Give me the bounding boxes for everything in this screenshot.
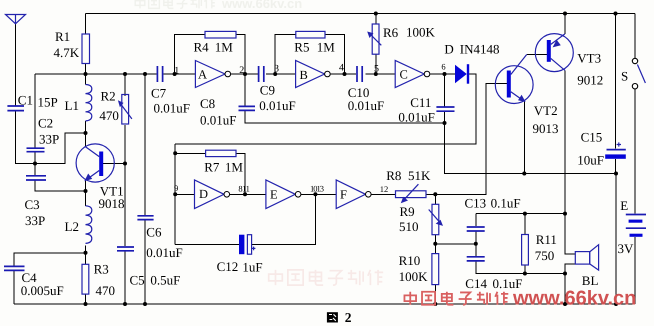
watermark middle ghost [269, 270, 383, 285]
value label L1 [65, 98, 79, 113]
svg-text:B: B [300, 68, 308, 82]
value label C2 33P [38, 115, 59, 146]
svg-text:1: 1 [174, 65, 179, 76]
svg-text:C11: C11 [410, 95, 431, 110]
transistor VT2 [495, 54, 533, 103]
svg-text:R2: R2 [101, 88, 116, 103]
junction node (435.3,194.3) [433, 192, 437, 196]
wire C4 bottom lead to rail [13, 271, 15, 304]
resistor R11 [522, 235, 529, 266]
svg-text:0.01uF: 0.01uF [259, 98, 295, 113]
svg-text:www.66kv.cn: www.66kv.cn [221, 0, 302, 11]
value label R1 4.7K [54, 29, 80, 60]
value label C5 0.5uF [130, 273, 181, 288]
junction node (475.8,243.8) [474, 242, 478, 246]
value label VT2 9013 [533, 103, 559, 136]
wire L2 bottom to node [85, 246, 87, 265]
value label BL [582, 273, 599, 288]
value label C7 0.01uF [151, 86, 190, 116]
wire top positive rail [86, 13, 636, 15]
svg-text:470: 470 [99, 108, 119, 123]
wire C15 bottom lead [615, 159, 617, 174]
wire D out to E in [230, 193, 266, 195]
svg-text:E: E [620, 198, 628, 213]
svg-text:0.01uF: 0.01uF [146, 245, 182, 260]
svg-text:10uF: 10uF [577, 153, 604, 168]
wire C6 column top [144, 74, 146, 215]
capacitor C15 (electrolytic) [605, 142, 626, 158]
junction node (444.5,74) [443, 72, 447, 76]
junction node (175.2,194.3) [173, 192, 177, 196]
wire C12 left lead [175, 243, 239, 245]
junction node (565,304) [563, 302, 567, 306]
wire switch top lead [634, 14, 636, 59]
svg-text:2: 2 [345, 310, 352, 325]
junction node (565,13.5) [563, 12, 567, 16]
capacitor C9 [259, 66, 264, 82]
wire C11 hang from node6 [444, 74, 446, 106]
resistor R7 [206, 150, 236, 156]
junction node (375.8,13.5) [374, 12, 378, 16]
svg-text:0.01uF: 0.01uF [398, 110, 434, 125]
wire R11 top lead [524, 214, 526, 235]
capacitor C5 [117, 247, 134, 251]
svg-text:1M: 1M [215, 40, 234, 55]
svg-text:C: C [400, 67, 408, 81]
wire speaker net y213.6 [476, 213, 565, 215]
value label R3 470 [94, 262, 115, 299]
svg-text:1013: 1013 [310, 183, 324, 193]
pin 6 [441, 62, 445, 72]
junction node (615.5,13.5) [614, 12, 618, 16]
svg-text:C13: C13 [465, 196, 487, 211]
junction node (435.3,243.8) [433, 242, 437, 246]
svg-text:3V: 3V [618, 241, 635, 256]
wire L1 top lead [85, 74, 87, 85]
value label C4 0.005uF [21, 270, 64, 298]
value label C9 0.01uF [259, 82, 295, 113]
wire D gate input lead [175, 193, 194, 195]
pin 3 [274, 63, 279, 74]
antenna [6, 15, 26, 24]
svg-text:R4: R4 [194, 40, 210, 55]
wire C10 to gate C input [365, 73, 395, 75]
svg-text:0.01uF: 0.01uF [348, 98, 384, 113]
op-amp inverter gate F [336, 180, 371, 209]
svg-text:100K: 100K [406, 25, 436, 40]
value label R11 750 [535, 232, 557, 263]
gate letter A [198, 68, 207, 82]
junction node (145,304) [143, 302, 147, 306]
capacitor C1 [7, 106, 24, 111]
capacitor C6 [137, 216, 153, 220]
wire R9 top lead [434, 194, 436, 204]
op-amp inverter gate D [195, 180, 230, 209]
svg-text:0.005uF: 0.005uF [21, 283, 64, 298]
wire base node down to C5 [124, 164, 126, 247]
junction node (125,163.5) [123, 162, 127, 166]
wire VT2 collector to VT3 base [527, 53, 547, 55]
junction node (125,74) [123, 72, 127, 76]
svg-text:1uF: 1uF [242, 259, 262, 274]
resistor R2 (adjustable) [118, 95, 132, 125]
capacitor C14 [467, 257, 485, 261]
wire VT3 collector column down to speaker [565, 70, 575, 253]
wire E out to F in [301, 193, 336, 195]
svg-text:0.5uF: 0.5uF [150, 273, 180, 288]
wire R10 bottom lead [434, 285, 436, 304]
capacitor C4 [4, 266, 25, 270]
svg-text:9012: 9012 [577, 72, 603, 87]
diode D IN4148 [455, 64, 469, 84]
svg-text:33P: 33P [39, 131, 59, 146]
capacitor C7 [157, 66, 162, 82]
capacitor C8 [239, 106, 256, 110]
value label C13 0.1uF [465, 196, 521, 211]
op-amp inverter gate C [395, 61, 430, 88]
junction node (35,163.5) [33, 162, 37, 166]
svg-text:4: 4 [339, 62, 344, 73]
gate letter D [199, 187, 208, 201]
svg-text:R1: R1 [55, 29, 70, 44]
svg-text:C1: C1 [18, 93, 33, 108]
value label R5 1M [294, 39, 335, 54]
svg-text:2: 2 [239, 65, 244, 76]
svg-text:C14: C14 [465, 276, 487, 291]
inductor L1 [86, 85, 92, 121]
capacitor C12 (electrolytic 1uF) [239, 235, 255, 255]
wire antenna lead down to C1 [15, 24, 17, 106]
wire F out to R8 [371, 193, 395, 195]
wire VT2 emitter down to ground wire [523, 101, 525, 173]
value label C3 33P [25, 197, 46, 228]
pin 1 [174, 65, 179, 76]
svg-text:C3: C3 [25, 197, 40, 212]
svg-text:VT2: VT2 [534, 103, 558, 118]
value label VT3 9012 [577, 50, 603, 87]
svg-text:4.7K: 4.7K [54, 45, 80, 60]
svg-text:E: E [270, 188, 278, 202]
svg-text:15P: 15P [38, 94, 58, 109]
junction node (245,194.3) [243, 192, 247, 196]
junction node (175.2,153.3) [173, 151, 177, 155]
wire left rail below C3 to emitter node [35, 181, 86, 191]
junction node (524.9,213.6) [523, 212, 527, 216]
svg-text:0.1uF: 0.1uF [491, 196, 521, 211]
junction node (375.8,74) [374, 72, 378, 76]
junction node (616,304) [614, 302, 618, 306]
value label C14 0.1uF [465, 276, 522, 291]
pin 5 [374, 63, 379, 74]
svg-text:C5: C5 [130, 273, 145, 288]
watermark red url [512, 288, 636, 310]
svg-text:BL: BL [582, 273, 599, 288]
wire C5 bottom to rail [124, 251, 126, 304]
svg-text:0.01uF: 0.01uF [200, 112, 236, 127]
junction node (85.5,74) [84, 72, 88, 76]
svg-text:R10: R10 [399, 253, 421, 268]
wire D gate input column [174, 144, 176, 244]
wire C1 bottom to left rail [16, 111, 36, 163]
svg-text:1M: 1M [317, 39, 336, 54]
wire L1 bottom to collector node [85, 121, 87, 147]
junction node (275.2,74) [273, 72, 277, 76]
svg-text:100K: 100K [399, 269, 429, 284]
junction node (85.5,191) [84, 189, 88, 193]
op-amp inverter gate E [266, 180, 301, 209]
wire C11 bottom down to ground wire, right to battery minus [445, 112, 617, 174]
switch S [632, 58, 645, 89]
resistor R4 [205, 31, 236, 38]
svg-text:VT3: VT3 [577, 50, 601, 65]
value label R8 51K [386, 168, 431, 183]
wire left rail x35 down from bus [34, 74, 36, 147]
wire C15 top lead from rail [615, 14, 617, 149]
value label R6 100K [383, 25, 436, 40]
watermark red chinese [404, 292, 508, 305]
caption 图 2 [327, 310, 352, 325]
capacitor C2 [27, 148, 45, 152]
svg-text:S: S [621, 69, 628, 84]
svg-text:5: 5 [374, 63, 379, 74]
pin 2 [239, 65, 244, 76]
wire main bus y74 left part [35, 73, 157, 75]
pin 12 [380, 184, 389, 194]
svg-text:C2: C2 [38, 115, 53, 130]
wire x616 ground return down [615, 174, 617, 305]
wire R4 feedback loop [175, 35, 205, 74]
wire VT3 emitter to rail [564, 14, 566, 35]
svg-text:R11: R11 [536, 232, 557, 247]
svg-text:9013: 9013 [533, 121, 559, 136]
svg-text:C8: C8 [200, 96, 215, 111]
svg-text:R3: R3 [94, 262, 109, 277]
svg-text:750: 750 [535, 248, 555, 263]
resistor R5 [296, 31, 325, 38]
wire gate C output to diode [430, 73, 455, 75]
svg-text:L2: L2 [65, 219, 79, 234]
svg-text:0.01uF: 0.01uF [154, 100, 190, 115]
capacitor C10 [357, 66, 362, 82]
value label D IN4148 [444, 41, 499, 56]
svg-text:811: 811 [238, 183, 249, 193]
wire R10 top lead [434, 244, 436, 254]
junction node (565,273.5) [563, 272, 567, 276]
wire R5 feedback loop [275, 35, 296, 74]
svg-text:470: 470 [96, 283, 116, 298]
junction node (435.3,304) [433, 302, 437, 306]
wire switch bottom to battery [634, 89, 636, 214]
svg-text:R8: R8 [386, 168, 401, 183]
junction node (174.6,74) [173, 72, 177, 76]
svg-text:R5: R5 [294, 39, 309, 54]
svg-text:3: 3 [274, 63, 279, 74]
wire gate A output to C9 [231, 73, 258, 75]
junction node (245,74) [243, 72, 247, 76]
gate letter B [300, 68, 308, 82]
wire R3 bottom lead [85, 294, 87, 304]
capacitor C11 [436, 107, 454, 111]
junction node (565,213.6) [563, 212, 567, 216]
battery E [626, 215, 646, 237]
value label R10 100K [399, 253, 429, 284]
value label C1 15P [18, 93, 58, 110]
wire C2/C3 node step to L1 bottom [35, 133, 86, 164]
junction node (145,74) [143, 72, 147, 76]
svg-text:F: F [340, 187, 347, 201]
value label E 3V [618, 198, 635, 256]
wire C12 right lead up to E output [252, 194, 316, 244]
svg-text:R7: R7 [204, 160, 220, 175]
value label L2 [65, 219, 79, 234]
pin 4 [339, 62, 344, 73]
wire R8 right to VT2 base [426, 83, 507, 194]
svg-text:1M: 1M [225, 160, 244, 175]
wire gate B output to C10 [330, 73, 356, 75]
wire R9 bottom lead [434, 235, 436, 244]
svg-text:C7: C7 [151, 86, 167, 101]
wire left rail C2 to C3 [34, 152, 36, 175]
transistor VT1 [76, 144, 114, 182]
junction node (524.3,173.5) [522, 172, 526, 176]
wire R6 bottom lead [375, 54, 377, 74]
value label R9 510 [399, 204, 419, 234]
svg-text:A: A [198, 68, 207, 82]
svg-text:D: D [199, 187, 208, 201]
svg-text:C6: C6 [146, 225, 162, 240]
junction node (125,304) [123, 302, 127, 306]
watermark top ghost [135, 0, 302, 11]
svg-text:R6: R6 [383, 25, 399, 40]
junction node (85.5,133) [84, 131, 88, 135]
junction node (444.5,123) [443, 121, 447, 125]
svg-text:33P: 33P [25, 213, 45, 228]
resistor R8 (adjustable) [396, 184, 427, 203]
svg-text:6: 6 [441, 62, 445, 72]
svg-text:12: 12 [380, 184, 389, 194]
value label R2 470 [99, 88, 119, 123]
value label R7 1M [204, 160, 243, 175]
svg-text:IN4148: IN4148 [460, 41, 500, 56]
junction node (85.5,304) [84, 302, 88, 306]
value label C6 0.01uF [146, 225, 182, 260]
svg-text:L1: L1 [65, 98, 79, 113]
capacitor C13 [467, 227, 485, 231]
gate letter C [400, 67, 408, 81]
wire R1 bottom lead [85, 64, 87, 75]
wire C4 top lead to L2 node [14, 253, 86, 266]
junction node (524.9,273.5) [523, 272, 527, 276]
wire R2 top lead [124, 74, 126, 96]
svg-text:9018: 9018 [99, 196, 125, 211]
gate letter F [340, 187, 347, 201]
svg-text:C12: C12 [217, 259, 239, 274]
wire bottom ground rail [14, 303, 635, 305]
pin 8 11 [238, 183, 249, 193]
resistor R9 (adjustable) [429, 204, 443, 234]
svg-text:R9: R9 [400, 204, 415, 219]
svg-text:D: D [444, 41, 453, 56]
value label C12 1uF [217, 259, 263, 274]
value label R4 1M [194, 40, 234, 55]
value label VT1 9018 [99, 184, 125, 211]
pin 10 13 [310, 183, 324, 193]
junction node (85.5,252.8) [84, 251, 88, 255]
speaker BL [575, 245, 598, 270]
wire speaker bottom stub down to rail [565, 264, 575, 304]
inductor L2 [86, 206, 92, 244]
wire C13 C14 column [475, 214, 477, 227]
wire R9 bottom node to C13C14 mid [435, 243, 476, 245]
transistor VT3 [535, 34, 573, 72]
wire R11 bottom lead [524, 265, 526, 274]
resistor R6 (adjustable) [367, 24, 381, 54]
svg-text:C9: C9 [260, 82, 275, 97]
wire diode cathode to corner, down, detector line left [175, 74, 476, 144]
wire battery bottom lead [634, 237, 636, 304]
value label C8 0.01uF [200, 96, 236, 128]
svg-text:510: 510 [399, 219, 419, 234]
value label C11 0.01uF [398, 95, 434, 125]
wire R7 feedback loop [175, 152, 205, 154]
svg-text:9: 9 [174, 183, 178, 193]
value label C10 0.01uF [348, 85, 384, 113]
value label S [621, 69, 628, 84]
op-amp inverter gate A [195, 61, 230, 88]
op-amp inverter gate B [296, 61, 331, 88]
wire C9 to gate B input [266, 73, 296, 75]
svg-text:51K: 51K [408, 168, 431, 183]
svg-text:C15: C15 [581, 130, 603, 145]
wire R2 bottom to base node [124, 125, 126, 164]
resistor R3 [82, 264, 89, 294]
capacitor C3 [26, 176, 46, 180]
junction node (344.5,74) [343, 72, 347, 76]
junction node (315.4,194.3) [313, 192, 317, 196]
value label C15 10uF [577, 130, 604, 168]
wire VT1 base lead [103, 163, 125, 165]
junction node (616,173.5) [614, 172, 618, 176]
wire C8 bottom across to C11 node [245, 111, 445, 123]
wire R1 top lead [85, 14, 87, 35]
gate letter E [270, 188, 278, 202]
wire C8 hang from node2 [244, 74, 246, 106]
wire R6 top lead [375, 14, 377, 25]
pin 9 [174, 183, 178, 193]
resistor R1 [82, 34, 90, 64]
wire VT1 emitter down to node [85, 180, 87, 205]
wire bus C7 to gate A input [163, 73, 195, 75]
resistor R10 [432, 254, 439, 285]
svg-text:www.66kv.cn: www.66kv.cn [512, 288, 636, 310]
wire C6 bottom to rail [144, 220, 146, 304]
